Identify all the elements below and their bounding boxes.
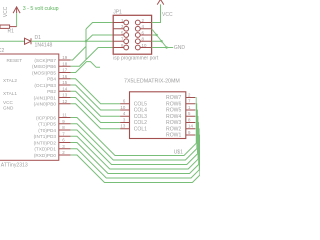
- svg-text:13: 13: [62, 93, 67, 98]
- pin stub ROW7: [186, 97, 195, 99]
- svg-text:(AIN0)PB0: (AIN0)PB0: [34, 102, 57, 107]
- wire PB5 hop: [71, 62, 100, 73]
- svg-text:10: 10: [142, 43, 147, 48]
- svg-text:ATTiny2313: ATTiny2313: [1, 162, 28, 168]
- svg-text:(INT1)PD3: (INT1)PD3: [34, 134, 57, 139]
- svg-text:XTAL1: XTAL1: [3, 91, 17, 96]
- pin stub 19: [59, 59, 71, 61]
- svg-text:5: 5: [188, 111, 191, 116]
- pin stub COL5: [120, 103, 129, 105]
- junction GND 3: [165, 46, 167, 48]
- svg-text:COL3: COL3: [134, 114, 147, 120]
- wire PD4 to ROW5 lower run: [71, 130, 198, 165]
- pin stub 3: [59, 148, 71, 150]
- svg-text:PB2: PB2: [47, 89, 56, 94]
- svg-text:10: 10: [120, 105, 125, 110]
- svg-text:VCC: VCC: [3, 100, 14, 105]
- JP1 pin circle 2: [135, 20, 140, 25]
- wire VCC to JP1 pin 2: [152, 4, 161, 22]
- svg-text:COL4: COL4: [134, 108, 147, 114]
- LED matrix U$1 box: [130, 92, 186, 139]
- wire PD6 to ROW7 riser: [195, 98, 196, 144]
- wire PD0 to ROW1 riser: [195, 135, 200, 175]
- wire vertical net x=86: [85, 29, 87, 60]
- svg-text:ROW3: ROW3: [166, 120, 181, 126]
- svg-text:VCC: VCC: [162, 12, 173, 18]
- wire PB6 to JP1 pin 9: [71, 48, 114, 67]
- pin stub 18: [59, 65, 71, 67]
- junction RESET node: [85, 40, 87, 42]
- wire VCC to R1: [16, 13, 18, 27]
- svg-text:7X5LEDMATRIX-20MM: 7X5LEDMATRIX-20MM: [124, 79, 180, 85]
- diode D1 cathode bar: [30, 38, 32, 44]
- svg-text:GND: GND: [174, 45, 186, 51]
- svg-text:7: 7: [62, 131, 65, 136]
- svg-text:15: 15: [62, 80, 67, 85]
- svg-text:ROW6: ROW6: [166, 101, 181, 107]
- svg-text:U$1: U$1: [174, 149, 183, 155]
- svg-text:17: 17: [62, 68, 67, 73]
- svg-text:COL1: COL1: [134, 126, 147, 132]
- pin stub ROW2: [186, 128, 195, 130]
- svg-text:(OC1)PB3: (OC1)PB3: [34, 83, 56, 88]
- wire PD1 to ROW2 riser: [195, 129, 199, 170]
- svg-text:IC2: IC2: [0, 48, 5, 54]
- pin stub ROW6: [186, 103, 195, 105]
- pin stub ROW4: [186, 115, 195, 117]
- svg-text:ROW5: ROW5: [166, 108, 181, 114]
- pin stub 13: [59, 97, 71, 99]
- pin stub 14: [59, 90, 71, 92]
- power symbol VCC arrow (top-right): [157, 0, 164, 5]
- JP1 pin line 4: [140, 28, 151, 30]
- power symbol VCC arrow (top-left): [13, 7, 20, 13]
- pin stub ROW5: [186, 109, 195, 111]
- svg-text:XTAL2: XTAL2: [3, 78, 17, 83]
- svg-text:8: 8: [188, 117, 191, 122]
- diode D1: [25, 38, 32, 44]
- wire PD0 to ROW1 lower run: [71, 155, 200, 183]
- wire PB3 to COL4: [71, 85, 121, 110]
- svg-text:(MOSI)PB5: (MOSI)PB5: [32, 70, 56, 75]
- svg-text:ROW4: ROW4: [166, 114, 181, 120]
- svg-text:PB4: PB4: [47, 77, 56, 82]
- svg-text:(AIN1)PB1: (AIN1)PB1: [34, 95, 57, 100]
- VCC arrow stem: [16, 7, 18, 13]
- svg-text:(T0)PD4: (T0)PD4: [38, 128, 56, 133]
- svg-text:12: 12: [62, 99, 67, 104]
- wire GND diagonal from pin 4: [152, 29, 167, 48]
- JP1 pin circle 7: [124, 39, 129, 44]
- pin stub ROW3: [186, 122, 195, 124]
- JP1 pin circle 5: [124, 33, 129, 38]
- JP1 pin circle 9: [124, 45, 129, 50]
- svg-text:1: 1: [188, 105, 191, 110]
- pin stub COL4: [120, 109, 129, 111]
- svg-text:9: 9: [62, 119, 65, 124]
- svg-text:ROW1: ROW1: [166, 133, 181, 139]
- wire PB4 to COL5: [71, 79, 121, 104]
- svg-text:(INT0)PD2: (INT0)PD2: [34, 140, 57, 145]
- svg-text:(ICP)PD6: (ICP)PD6: [36, 115, 56, 120]
- svg-text:(SCK)PB7: (SCK)PB7: [34, 58, 56, 63]
- svg-text:3: 3: [62, 144, 65, 149]
- pin stub 17: [59, 72, 71, 74]
- pin stub 2: [59, 154, 71, 156]
- wire PD6 to ROW7 lower run: [71, 118, 197, 156]
- svg-text:2: 2: [188, 92, 191, 97]
- wire GND stub pin 6: [152, 34, 157, 36]
- svg-text:4: 4: [123, 111, 126, 116]
- wire GND stub pin 8: [152, 40, 162, 42]
- wire PD5 to ROW6 riser: [195, 104, 197, 149]
- JP1 pin circle 8: [135, 39, 140, 44]
- JP1 pin line 5: [113, 34, 124, 36]
- svg-text:VCC: VCC: [3, 6, 9, 17]
- JP1 pin circle 6: [135, 33, 140, 38]
- JP1 pin line 7: [113, 40, 124, 42]
- svg-text:3 - 5 volt cukup: 3 - 5 volt cukup: [23, 6, 59, 12]
- svg-text:ROW7: ROW7: [166, 95, 181, 101]
- wire PD2 to ROW3 riser: [195, 123, 198, 165]
- wire RESET net left segment: [0, 40, 25, 42]
- wire PB2 to COL3: [71, 91, 121, 116]
- wire GND stub pin 10: [152, 47, 167, 49]
- JP1 pin line 10: [140, 47, 151, 49]
- svg-text:6: 6: [62, 138, 65, 143]
- wire PB7 diagonal to vertical: [71, 46, 86, 60]
- svg-text:COL5: COL5: [134, 101, 147, 107]
- wire to JP1 pin 5: [86, 35, 113, 41]
- JP1 pin circle 1: [124, 20, 129, 25]
- svg-text:6: 6: [123, 99, 126, 104]
- svg-text:D1: D1: [35, 35, 42, 41]
- wire GND tail: [167, 47, 174, 49]
- wire to JP1 pin 1: [86, 23, 113, 30]
- pin stub 7: [59, 135, 71, 137]
- connector JP1 box: [113, 15, 151, 54]
- wire PD4 to ROW5 riser: [195, 110, 197, 154]
- svg-text:3: 3: [123, 117, 126, 122]
- wire RESET net to JP1 pin 7 row: [31, 40, 113, 42]
- wire PB0 to COL1: [71, 104, 121, 129]
- JP1 pin line 8: [140, 40, 151, 42]
- op-amp/IC U1: IC2 ATTiny2313 box: [0, 54, 59, 160]
- JP1 pin line 9: [113, 47, 124, 49]
- JP1 pin circle 3: [124, 26, 129, 31]
- svg-text:COL2: COL2: [134, 120, 147, 126]
- pin stub COL2: [120, 122, 129, 124]
- svg-text:7: 7: [188, 99, 191, 104]
- svg-text:(MISO)PB6: (MISO)PB6: [32, 64, 56, 69]
- svg-text:8: 8: [62, 125, 65, 130]
- pin stub COL1: [120, 128, 129, 130]
- junction GND 1: [155, 34, 157, 36]
- junction GND 2: [160, 40, 162, 42]
- svg-text:(RXD)PD0: (RXD)PD0: [34, 153, 57, 158]
- svg-text:RESET: RESET: [7, 58, 23, 63]
- wire PD3 to ROW4 lower run: [71, 136, 198, 169]
- svg-text:(TXD)PD1: (TXD)PD1: [34, 147, 56, 152]
- svg-text:11: 11: [62, 113, 67, 118]
- JP1 pin line 3: [113, 28, 124, 30]
- pin stub 16: [59, 78, 71, 80]
- pin stub 11: [59, 117, 71, 119]
- pin stub 6: [59, 142, 71, 144]
- svg-text:2: 2: [62, 150, 65, 155]
- pin stub COL3: [120, 115, 129, 117]
- JP1 pin circle 10: [135, 45, 140, 50]
- JP1 pin line 6: [140, 34, 151, 36]
- svg-text:isp programmer port: isp programmer port: [113, 55, 159, 61]
- pin stub 15: [59, 84, 71, 86]
- wire PB1 to COL2: [71, 98, 121, 123]
- pin wire R1 right: [10, 26, 17, 28]
- JP1 pin line 2: [140, 22, 151, 24]
- wire PD2 to ROW3 lower run: [71, 143, 199, 174]
- svg-text:14: 14: [62, 86, 67, 91]
- JP1 pin line 1: [113, 22, 124, 24]
- pin stub ROW1: [186, 134, 195, 136]
- resistor R1: [0, 25, 10, 28]
- pin stub 8: [59, 129, 71, 131]
- pin stub 9: [59, 123, 71, 125]
- svg-text:16: 16: [62, 74, 67, 79]
- svg-text:R1: R1: [8, 29, 15, 35]
- wire PD5 to ROW6 lower run: [71, 124, 197, 160]
- svg-text:ROW2: ROW2: [166, 126, 181, 132]
- wire PD1 to ROW2 lower run: [71, 149, 200, 178]
- svg-text:19: 19: [62, 55, 67, 60]
- svg-text:1N4148: 1N4148: [35, 43, 53, 49]
- svg-text:GND: GND: [3, 106, 14, 111]
- JP1 pin circle 4: [135, 26, 140, 31]
- svg-text:9: 9: [188, 130, 191, 135]
- wire PD3 to ROW4 riser: [195, 116, 198, 159]
- svg-text:JP1: JP1: [113, 10, 122, 16]
- svg-text:18: 18: [62, 61, 67, 66]
- svg-text:13: 13: [120, 124, 125, 129]
- pin stub 12: [59, 103, 71, 105]
- svg-text:14: 14: [188, 124, 193, 129]
- svg-text:(T1)PD5: (T1)PD5: [38, 122, 56, 127]
